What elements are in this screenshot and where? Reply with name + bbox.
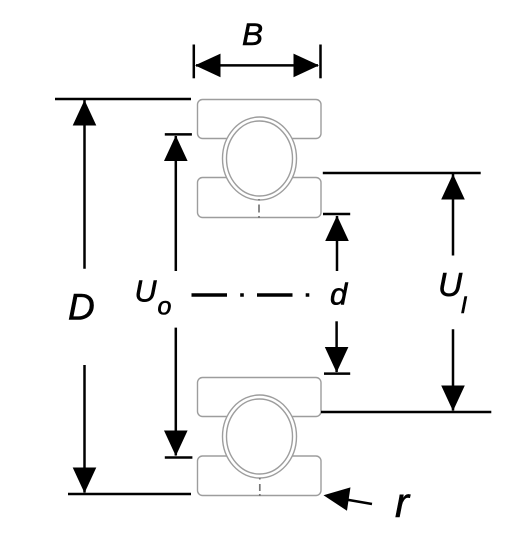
svg-text:o: o — [158, 293, 172, 321]
svg-text:U: U — [135, 275, 158, 309]
svg-text:d: d — [330, 276, 349, 311]
svg-text:U: U — [438, 267, 463, 304]
svg-text:I: I — [461, 292, 468, 319]
svg-text:r: r — [395, 479, 411, 526]
svg-text:B: B — [242, 16, 263, 52]
svg-text:D: D — [68, 287, 95, 328]
